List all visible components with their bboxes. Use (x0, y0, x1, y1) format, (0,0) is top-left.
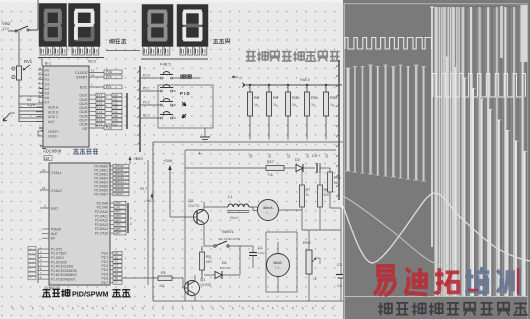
svg-text:ADD C: ADD C (48, 115, 59, 119)
svg-text:46k: 46k (159, 284, 165, 288)
svg-text:1k: 1k (292, 103, 296, 107)
svg-text:In0: In0 (45, 69, 50, 73)
svg-text:56R: 56R (324, 193, 331, 197)
svg-text:START: START (76, 76, 88, 80)
svg-text:ADD A: ADD A (48, 106, 59, 110)
svg-text:1k: 1k (311, 103, 315, 107)
svg-text:12V: 12V (2, 26, 9, 31)
svg-text:1k: 1k (254, 103, 258, 107)
svg-text:OE: OE (82, 127, 88, 131)
svg-text:VREF-: VREF- (48, 135, 58, 139)
svg-text:1DP&7: 1DP&7 (115, 192, 125, 196)
svg-text:Q7: Q7 (114, 122, 118, 126)
svg-text:RV1: RV1 (24, 59, 33, 64)
svg-text:VREF+: VREF+ (48, 130, 59, 134)
svg-text:P2d: P2d (106, 126, 112, 130)
svg-text:In7: In7 (45, 101, 50, 105)
svg-text:MR750: MR750 (220, 266, 230, 270)
svg-text:L1: L1 (228, 194, 233, 199)
svg-text:R9: R9 (273, 95, 279, 100)
svg-text:S0: S0 (249, 154, 253, 158)
svg-text:P0.7/AD7: P0.7/AD7 (94, 192, 108, 196)
svg-text:PID/SPWM: PID/SPWM (72, 290, 108, 299)
svg-text:P2.1: P2.1 (143, 87, 150, 91)
svg-text:R11: R11 (311, 95, 319, 100)
svg-text:ADD B: ADD B (48, 110, 59, 114)
svg-text:2: 2 (130, 222, 132, 226)
svg-text:R7: R7 (306, 188, 311, 192)
svg-text:R17: R17 (267, 160, 274, 164)
svg-text:+VLT: +VLT (133, 157, 141, 161)
svg-text:4: 4 (240, 76, 242, 80)
svg-text:06.5: 06.5 (88, 59, 97, 64)
svg-text:RST: RST (51, 207, 59, 211)
svg-text:XTAL1: XTAL1 (51, 171, 62, 175)
svg-text:CLOCK: CLOCK (75, 71, 88, 75)
svg-text:5k6: 5k6 (334, 181, 339, 185)
svg-text:R8: R8 (254, 95, 260, 100)
svg-text:+24V: +24V (163, 158, 173, 163)
svg-text:P2a: P2a (106, 70, 112, 74)
svg-text:S4: S4 (325, 154, 329, 158)
svg-text:In3: In3 (45, 82, 50, 86)
svg-text:In4: In4 (45, 87, 50, 91)
svg-text:In6: In6 (45, 96, 50, 100)
svg-text:10k: 10k (268, 173, 274, 177)
svg-text:1Y0: 1Y0 (97, 122, 103, 126)
svg-text:In5: In5 (45, 92, 50, 96)
svg-text:XTAL2: XTAL2 (51, 189, 62, 193)
svg-text:Q1: Q1 (200, 277, 206, 282)
svg-text:ALE: ALE (51, 232, 58, 236)
svg-text:D2: D2 (295, 158, 300, 162)
svg-text:88mA: 88mA (263, 206, 273, 210)
svg-text:P0.7: P0.7 (140, 187, 147, 191)
svg-text:T7: T7 (115, 281, 119, 285)
svg-text:66R: 66R (206, 260, 213, 264)
svg-text:88AC: 88AC (274, 261, 283, 265)
svg-text:S3: S3 (306, 154, 310, 158)
svg-text:D1: D1 (222, 261, 227, 265)
svg-text:19: 19 (42, 168, 46, 172)
svg-text:C1: C1 (258, 246, 263, 250)
svg-text:P: P (130, 217, 132, 221)
svg-text:PSEW: PSEW (51, 228, 62, 232)
svg-text:18: 18 (42, 186, 46, 190)
svg-text:ADC0808: ADC0808 (43, 149, 62, 154)
svg-text:2N3055: 2N3055 (200, 283, 211, 287)
svg-text:26: 26 (39, 67, 43, 71)
svg-text:S1: S1 (268, 154, 272, 158)
svg-text:1.2V: 1.2V (27, 102, 36, 107)
svg-text:S2: S2 (287, 154, 291, 158)
svg-text:1k: 1k (313, 277, 317, 281)
svg-text:F4B.5: F4B.5 (160, 62, 171, 67)
svg-text:R10: R10 (292, 95, 300, 100)
svg-text:102p: 102p (258, 251, 265, 255)
svg-text:27: 27 (39, 71, 43, 75)
svg-text:P2.7/A15: P2.7/A15 (95, 232, 108, 236)
svg-text:+: + (198, 151, 201, 157)
svg-text:2SA733: 2SA733 (188, 204, 200, 208)
svg-text:P1.7/CEX4&SCK: P1.7/CEX4&SCK (51, 278, 76, 282)
svg-text:In2: In2 (45, 78, 50, 82)
svg-text:P2c: P2c (106, 85, 112, 89)
svg-text:SW-SPDT-MOM: SW-SPDT-MOM (218, 237, 240, 241)
svg-text:P2.2: P2.2 (143, 101, 150, 105)
svg-text:C4: C4 (312, 154, 317, 158)
svg-text:RV2: RV2 (303, 240, 311, 245)
svg-text:R1: R1 (161, 271, 166, 275)
svg-text:R6: R6 (324, 188, 329, 192)
svg-text:FAB.5: FAB.5 (300, 78, 310, 82)
svg-text:R2: R2 (206, 255, 211, 259)
svg-text:16: 16 (91, 69, 95, 73)
svg-text:2P7: 2P7 (116, 231, 122, 235)
svg-text:R16: R16 (334, 176, 341, 180)
svg-text:4k: 4k (306, 193, 310, 197)
svg-text:+ -: + - (266, 211, 270, 215)
svg-text:28: 28 (39, 76, 43, 80)
svg-text:ALE: ALE (48, 120, 55, 124)
svg-text:P2.3: P2.3 (143, 114, 150, 118)
svg-text:P3.7: P3.7 (101, 281, 108, 285)
svg-text:Q2: Q2 (188, 198, 194, 203)
svg-text:B-1: B-1 (45, 61, 52, 66)
svg-text:P2b: P2b (106, 75, 112, 79)
svg-text:SW/V1: SW/V1 (222, 230, 234, 234)
svg-text:10: 10 (91, 73, 95, 77)
svg-text:EOC: EOC (80, 86, 88, 90)
svg-text:P I D: P I D (180, 91, 190, 96)
svg-text:1k: 1k (330, 103, 334, 107)
svg-text:In1: In1 (45, 73, 50, 77)
svg-text:P2.0: P2.0 (143, 74, 150, 78)
svg-text:EF: EF (51, 237, 55, 241)
svg-text:1k: 1k (273, 103, 277, 107)
svg-text:+ V -: + V - (275, 266, 282, 270)
svg-text:10p: 10p (337, 284, 343, 288)
svg-text:50mH: 50mH (230, 216, 239, 220)
